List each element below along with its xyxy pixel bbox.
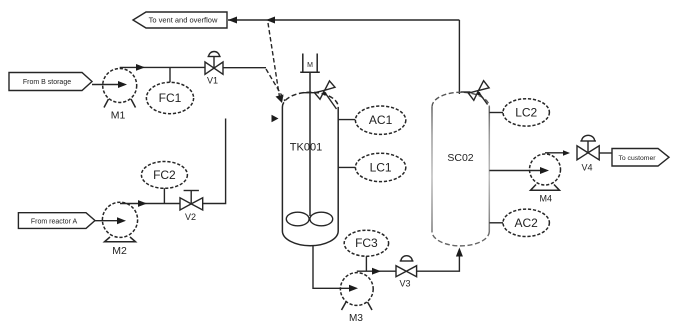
- instrument AC2: [503, 209, 549, 236]
- wire M3 outlet to V3: [357, 270, 396, 272]
- svg-text:FC2: FC2: [153, 168, 176, 182]
- instrument FC1: [146, 82, 193, 113]
- arrow into SC02 bottom: [456, 248, 463, 257]
- pump M3: [340, 273, 373, 324]
- svg-text:AC1: AC1: [369, 113, 393, 127]
- wire FC3 stem: [365, 256, 367, 271]
- svg-text:AC2: AC2: [515, 216, 539, 230]
- svg-text:M4: M4: [540, 194, 553, 204]
- svg-text:M3: M3: [349, 313, 363, 324]
- wire FC1 stem: [169, 67, 171, 82]
- svg-text:From B storage: From B storage: [23, 79, 71, 86]
- valve V1: [205, 51, 223, 85]
- relief valve on TK001: [303, 81, 337, 109]
- svg-text:M2: M2: [112, 245, 127, 257]
- wire V4 to customer flag: [599, 152, 612, 154]
- instrument FC3: [344, 230, 388, 256]
- flag To vent and overflow: [133, 12, 227, 28]
- wire TK001 bottom outlet to M3: [313, 246, 352, 289]
- svg-text:V2: V2: [185, 212, 196, 222]
- instrument FC2: [141, 162, 187, 189]
- svg-text:V4: V4: [581, 163, 592, 173]
- flag From B storage: [9, 73, 92, 91]
- wire dashed overflow line to TK001: [268, 23, 280, 97]
- wire M4 outlet to V4: [545, 152, 564, 154]
- arrow on vent header: [266, 17, 275, 24]
- agitator motor M on TK001: [300, 54, 320, 73]
- svg-text:To vent and overflow: To vent and overflow: [149, 16, 218, 25]
- arrow on M2 outlet: [138, 200, 147, 207]
- arrow on M3 outlet: [372, 268, 381, 275]
- agitator shaft: [309, 72, 311, 216]
- agitator impeller: [286, 212, 332, 226]
- instrument AC1: [355, 106, 405, 134]
- pump M2: [102, 202, 137, 257]
- wire V1 outlet: [223, 67, 266, 69]
- valve V3: [396, 256, 417, 289]
- wire M2 outlet to V2: [120, 203, 180, 205]
- instrument LC2: [503, 99, 549, 126]
- wire vent header: [228, 19, 459, 21]
- arrow feed into TK001 side: [272, 115, 279, 122]
- flag From reactor A: [18, 213, 95, 229]
- arrow on M4 outlet: [563, 150, 570, 155]
- instrument LC1: [355, 153, 405, 181]
- svg-text:M1: M1: [111, 110, 126, 122]
- wire SC02 to M4: [489, 170, 542, 172]
- wire AC1 stub: [339, 119, 356, 121]
- svg-text:V3: V3: [399, 279, 410, 289]
- svg-text:SC02: SC02: [447, 152, 473, 164]
- column SC02: [432, 92, 489, 246]
- svg-text:V1: V1: [207, 76, 218, 86]
- valve V2: [180, 191, 203, 223]
- arrow into M2 center: [117, 217, 126, 224]
- wire V3 to SC02 bottom: [417, 253, 460, 271]
- svg-text:To customer: To customer: [618, 155, 656, 162]
- arrow into vent flag: [228, 17, 237, 24]
- wire SC02 vent riser: [458, 20, 460, 94]
- wire FC2 stem: [163, 188, 165, 203]
- arrow into M3 center: [349, 285, 358, 292]
- wire dashed feed diagonal from V1 to TK001: [266, 69, 285, 101]
- svg-text:M: M: [307, 62, 313, 69]
- svg-text:LC1: LC1: [370, 160, 392, 174]
- wire flag to M2: [95, 220, 118, 222]
- wire AC2 stub: [489, 222, 503, 224]
- arrow into M1 center: [118, 81, 127, 88]
- wire M1 outlet to V1: [120, 66, 205, 68]
- arrow into M4 center: [540, 167, 549, 174]
- pump M4: [530, 154, 561, 204]
- flag To customer: [612, 149, 669, 167]
- wire V2 outlet riser: [203, 119, 226, 204]
- relief valve on SC02: [461, 81, 489, 105]
- arrow on M1 outlet: [136, 64, 145, 71]
- svg-text:FC1: FC1: [159, 91, 182, 105]
- wire LC2 stub: [489, 112, 503, 114]
- svg-text:FC3: FC3: [355, 236, 378, 250]
- arrow dashed overflow into TK001: [276, 95, 284, 104]
- svg-text:LC2: LC2: [515, 105, 537, 119]
- svg-text:TK001: TK001: [290, 142, 322, 154]
- wire LC1 stub: [339, 166, 356, 168]
- pump M1: [103, 69, 137, 122]
- svg-text:From reactor A: From reactor A: [31, 219, 78, 226]
- tank TK001: [282, 92, 338, 246]
- valve V4: [577, 135, 599, 172]
- wire flag to M1: [92, 84, 120, 86]
